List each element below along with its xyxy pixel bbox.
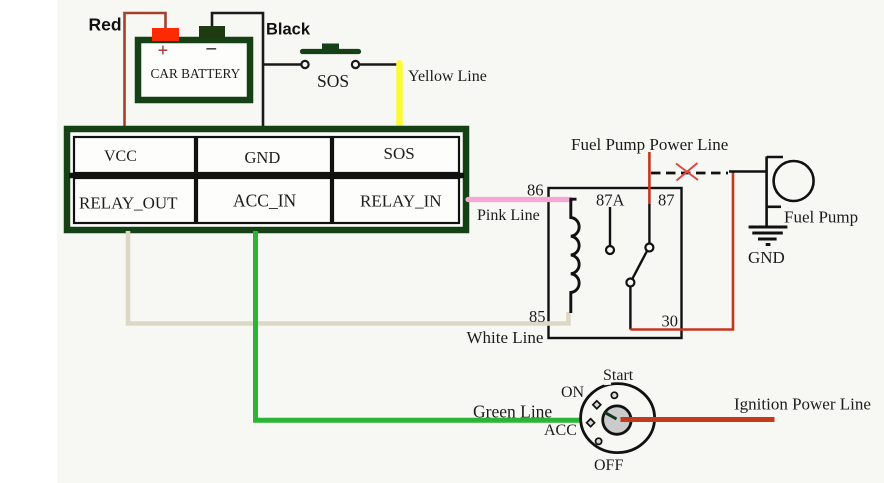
svg-text:+: + [158,41,169,62]
relay K1 box [549,188,682,338]
svg-text:GND: GND [748,248,785,267]
relay switch arm to pin 30 [633,251,648,279]
svg-text:85: 85 [529,307,546,326]
svg-text:Pink Line: Pink Line [477,207,540,224]
svg-text:ACC_IN: ACC_IN [233,191,297,211]
ground GND [749,227,788,245]
svg-text:Start: Start [603,367,634,384]
svg-text:Fuel Pump Power Line: Fuel Pump Power Line [571,135,728,154]
tracker terminal block [67,129,466,230]
marker Start [611,392,617,398]
svg-text:87: 87 [658,191,675,210]
marker ON [593,401,601,409]
svg-text:30: 30 [662,312,679,331]
svg-text:87A: 87A [596,191,625,210]
wire red battery positive to VCC [125,13,166,127]
marker ACC [587,419,595,427]
wire pink line RELAY_IN to relay 86 [468,197,571,202]
wire green line ACC_IN to ignition switch [256,231,581,420]
relay coil [571,199,579,313]
relay pin 87 [648,204,650,243]
svg-text:–: – [206,38,217,59]
wire to fuel pump [729,170,767,173]
fuel pump M1 [767,157,814,227]
marker OFF [596,438,602,444]
svg-text:VCC: VCC [104,148,137,165]
svg-text:Fuel Pump: Fuel Pump [784,208,858,227]
svg-text:White Line: White Line [467,328,544,347]
svg-text:Red: Red [89,15,122,35]
svg-text:CAR BATTERY: CAR BATTERY [151,66,241,81]
svg-text:SOS: SOS [317,71,349,91]
wire yellow line [396,64,403,128]
svg-text:ON: ON [561,384,585,401]
svg-text:GND: GND [245,148,281,167]
svg-text:SOS: SOS [384,144,415,163]
switch SOS [301,44,399,69]
svg-text:Ignition Power Line: Ignition Power Line [734,395,871,414]
ignition switch S2 [581,383,655,453]
wire black battery negative to GND and SOS [212,13,301,127]
wire fuel pump power line (red) [648,152,651,204]
svg-text:86: 86 [527,181,544,200]
svg-text:OFF: OFF [594,457,623,474]
cut mark X [676,163,698,181]
relay pin 87A [609,207,611,246]
svg-text:Yellow Line: Yellow Line [408,68,487,85]
svg-text:RELAY_OUT: RELAY_OUT [79,194,178,213]
wire ignition power line [621,417,775,422]
wire dashed cut segment [651,172,728,175]
svg-text:Green Line: Green Line [473,402,552,422]
car battery B1 [138,26,250,100]
svg-text:RELAY_IN: RELAY_IN [360,192,442,211]
svg-text:Black: Black [266,21,311,39]
svg-text:ACC: ACC [544,422,577,439]
wire white line RELAY_OUT to relay 85 [128,231,569,324]
